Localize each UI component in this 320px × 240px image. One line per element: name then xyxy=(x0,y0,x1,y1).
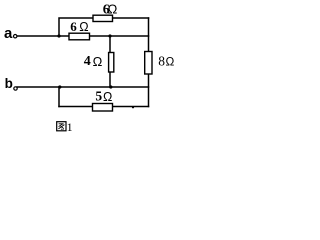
svg-text:8: 8 xyxy=(158,54,165,69)
svg-text:1: 1 xyxy=(67,120,73,134)
svg-text:Ω: Ω xyxy=(93,54,103,69)
svg-text:Ω: Ω xyxy=(79,20,88,34)
svg-text:b: b xyxy=(5,76,13,91)
svg-text:Ω: Ω xyxy=(103,90,112,104)
svg-text:Ω: Ω xyxy=(166,55,175,69)
svg-text:Ω: Ω xyxy=(108,2,118,17)
svg-text:a: a xyxy=(4,25,13,42)
svg-text:5: 5 xyxy=(95,89,102,104)
svg-text:6: 6 xyxy=(70,19,77,34)
svg-text:4: 4 xyxy=(84,54,91,69)
